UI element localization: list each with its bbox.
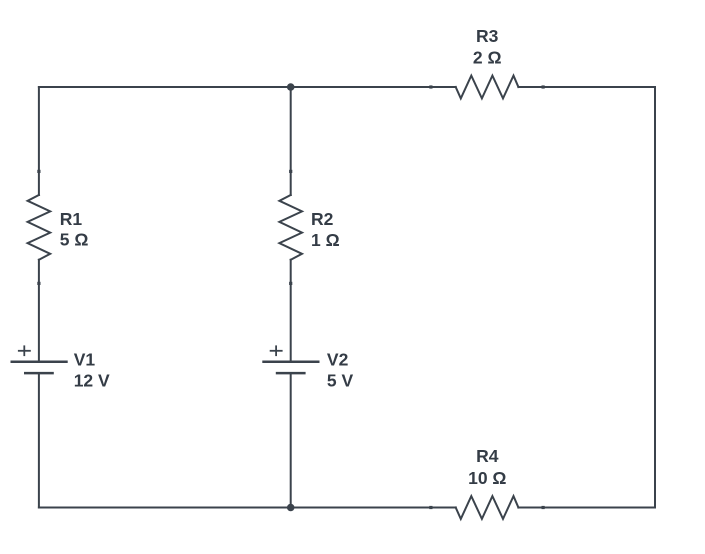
- battery V2: [262, 362, 319, 373]
- svg-text:12 V: 12 V: [74, 370, 110, 390]
- wire bottom-middle segment: [291, 507, 456, 509]
- label R1 value 5 ohm: [60, 209, 89, 249]
- node B junction dot bottom: [287, 504, 295, 512]
- svg-text:R1: R1: [60, 209, 83, 229]
- battery V2 plus sign: [270, 345, 283, 356]
- wire bottom-left segment: [39, 507, 291, 509]
- wire left below V1: [38, 374, 40, 508]
- svg-text:2 Ω: 2 Ω: [473, 48, 502, 68]
- battery V1: [11, 362, 68, 373]
- label V1 value 12 V: [74, 349, 110, 390]
- label V2 value 5 V: [327, 349, 354, 390]
- label R4 value 10 ohm: [468, 446, 506, 488]
- label R3 value 2 ohm: [473, 26, 502, 68]
- wire top-right segment: [518, 86, 655, 88]
- resistor R1: [28, 170, 51, 285]
- svg-text:5 Ω: 5 Ω: [60, 230, 89, 250]
- svg-text:R4: R4: [476, 446, 499, 466]
- svg-text:5 V: 5 V: [327, 370, 354, 390]
- svg-text:R2: R2: [311, 209, 334, 229]
- wire middle below V2: [290, 374, 292, 508]
- wire top-left segment: [39, 86, 291, 88]
- wire bottom-right segment: [518, 507, 655, 509]
- resistor R3: [429, 76, 544, 99]
- resistor R4: [429, 496, 544, 519]
- wire middle between R2 and V2: [290, 260, 292, 361]
- label R2 value 1 ohm: [311, 209, 340, 250]
- svg-text:V2: V2: [327, 349, 349, 369]
- svg-text:R3: R3: [476, 26, 499, 46]
- svg-text:1 Ω: 1 Ω: [311, 230, 340, 250]
- svg-text:V1: V1: [74, 349, 96, 369]
- wire right side: [654, 87, 656, 508]
- wire middle upper from node A to R2: [290, 87, 292, 195]
- resistor R2: [279, 170, 302, 285]
- wire left between R1 and V1: [38, 260, 40, 361]
- battery V1 plus sign: [18, 345, 31, 356]
- svg-text:10 Ω: 10 Ω: [468, 468, 506, 488]
- wire top-middle segment: [291, 86, 456, 88]
- node A junction dot top: [287, 83, 295, 91]
- wire left upper from top to R1: [38, 87, 40, 195]
